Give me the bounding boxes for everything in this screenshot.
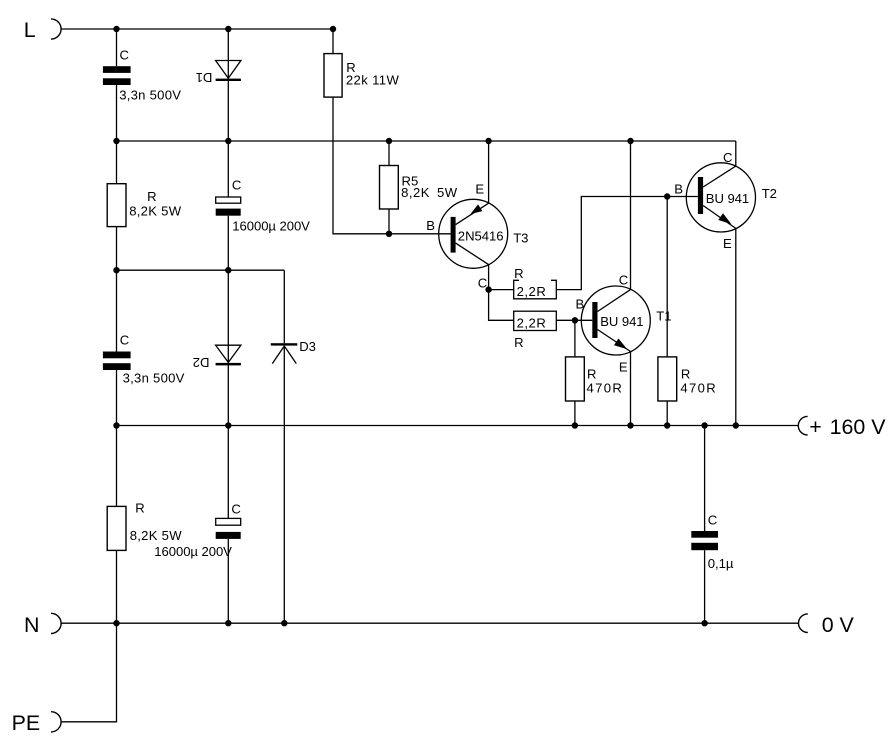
wire 2,2R upper output to T2 base [556,197,698,290]
wire top rail from L to 22k resistor [61,29,333,54]
svg-text:+: + [809,415,822,439]
resistor R 470R (right) [658,357,716,401]
wire horizontal rail 3 (y=270.2) with D3 branch corner [117,269,285,271]
node junction rail0 x=116.5 [113,620,119,626]
resistor R 22k 11W [324,54,399,98]
terminal 0V [798,613,854,637]
node junction rail0 x=284.3 [281,620,287,626]
resistor R 8,2K 5W (lower left) [107,501,182,551]
svg-text:C: C [231,502,240,517]
resistor R5 8,2K 5W [380,166,458,210]
transistor T1 BU 941 [581,286,650,355]
diode D2 [193,345,241,370]
wire R5 bottom lead [388,209,390,234]
svg-text:L: L [24,18,36,42]
node junction rail0 x=228.3 [225,620,231,626]
capacitor C 16000µ 200V (lower) [154,502,241,559]
svg-text:16000µ 200V: 16000µ 200V [232,218,310,233]
capacitor C 3,3n 500V (top) [103,47,181,102]
svg-text:T1: T1 [656,308,671,323]
terminal PE [12,711,62,735]
svg-text:8,2K 5W: 8,2K 5W [401,185,458,200]
wire T1 emitter down to +160V rail [630,352,632,426]
wire T2 base node down to 470R right [666,197,668,357]
node junction rail160 x=703.5 [701,422,707,428]
svg-text:8,2K 5W: 8,2K 5W [130,528,183,543]
node junction rail160 x=228.3 [225,422,231,428]
node junction rail2 at T3 emitter [485,138,491,144]
svg-text:R: R [135,501,144,516]
resistor R 8,2K 5W (upper left) [107,184,182,227]
diode D1 [196,61,241,86]
svg-text:B: B [576,297,585,312]
svg-text:2,2R: 2,2R [517,284,546,299]
wire PE to left vertical [61,623,116,722]
svg-text:3,3n 500V: 3,3n 500V [119,87,181,102]
svg-text:2,2R: 2,2R [517,316,546,331]
svg-text:C: C [232,177,241,192]
node junction rail160 x=735.8 [733,422,739,428]
wire node C down to 2,2R lower [489,290,514,321]
node junction top at C1 [113,26,119,32]
svg-text:D2: D2 [193,355,210,370]
svg-text:16000µ 200V: 16000µ 200V [154,544,232,559]
svg-text:D3: D3 [299,339,316,354]
svg-text:C: C [619,272,628,287]
node junction rail160 x=116.5 [113,422,119,428]
wire T3 collector down to node C [488,265,490,290]
node junction rail160 x=667.2 [664,422,670,428]
svg-text:C: C [708,513,717,528]
wire T2 emitter down to +160V rail [735,228,737,425]
svg-text:470R: 470R [680,381,715,396]
svg-text:T2: T2 [762,186,777,201]
resistor R 470R (left) [566,357,622,401]
svg-text:R: R [514,335,523,350]
svg-text:E: E [723,236,732,251]
node junction rail2 at R5 [386,138,392,144]
wire T1 base node down to 470R left [574,320,576,357]
node junction rail3 at x=228.3 [225,267,231,273]
resistor R 2,2R (upper, open-top box) [514,266,557,299]
resistor R 2,2R (lower) [514,311,557,350]
svg-text:0 V: 0 V [822,613,855,637]
wire T2 collector to rail2 corner [735,141,737,166]
svg-text:R: R [681,367,690,382]
node junction T1 base [572,317,578,323]
diode D3 [271,339,316,364]
terminal +160V [798,415,886,439]
wire node C to 2,2R upper [489,289,514,291]
wire 0,1µ bottom lead [704,550,706,623]
svg-text:22k 11W: 22k 11W [346,73,400,88]
svg-text:2N5416: 2N5416 [458,228,504,243]
wire 22k bottom down to T3 base row [333,97,451,234]
svg-text:E: E [619,359,628,374]
node junction rail2 at x=228.3 [225,138,231,144]
node junction T2 base [664,193,670,199]
wire T1 collector up to rail2 [630,141,632,290]
node junction T3 collector [485,286,491,292]
node junction rail160 x=630.5 [627,422,633,428]
svg-text:470R: 470R [587,381,622,396]
svg-text:B: B [674,182,683,197]
wire horizontal rail 2 (y=141) [117,140,736,142]
svg-text:E: E [475,182,484,197]
svg-text:C: C [120,47,129,62]
svg-text:R: R [587,367,596,382]
wire diode-branch vertical x=228.3 [227,29,229,623]
capacitor C 0,1µ [691,513,734,571]
node junction rail0 x=703.5 [701,620,707,626]
wire 0V rail [61,622,798,624]
wire T3 emitter to rail2 [488,141,490,203]
svg-text:R: R [514,266,523,281]
svg-text:N: N [24,613,39,637]
capacitor C 3,3n 500V (lower) [103,332,185,385]
svg-text:C: C [723,150,732,165]
wire 2,2R lower output to T1 base [556,319,592,321]
svg-text:C: C [120,332,129,347]
svg-text:T3: T3 [513,231,528,246]
node junction rail2 at T1 collector [627,138,633,144]
svg-text:0,1µ: 0,1µ [708,556,734,571]
wire 470R right bottom lead [666,401,668,426]
node junction rail3 at x=116.5 [113,267,119,273]
capacitor C 16000µ 200V (upper) [216,177,310,233]
svg-text:B: B [426,218,435,233]
svg-text:3,3n 500V: 3,3n 500V [123,371,185,386]
wire +160V rail [117,425,799,427]
node junction R5 bottom [386,231,392,237]
transistor T3 2N5416 [439,199,508,268]
svg-text:R: R [147,189,156,204]
svg-text:160 V: 160 V [830,415,887,439]
svg-text:PE: PE [12,711,41,735]
wire 470R left bottom lead [574,401,576,426]
svg-text:8,2K 5W: 8,2K 5W [129,204,182,219]
svg-text:BU 941: BU 941 [706,191,749,206]
node junction rail160 x=574.9 [572,422,578,428]
transistor T2 BU 941 [686,163,755,232]
wire R5 top lead [388,141,390,166]
svg-text:D1: D1 [196,70,213,85]
svg-text:BU 941: BU 941 [600,314,643,329]
wire 0,1µ top lead [704,426,706,532]
terminal N [24,613,61,637]
node junction top at 22k [330,26,336,32]
wire left vertical x=116.5 upper [116,29,118,623]
terminal L [24,18,61,42]
wire D3 branch vertical x=284.3 [283,270,285,623]
node junction top at D1 [225,26,231,32]
node junction rail2 at x=116.5 [113,138,119,144]
